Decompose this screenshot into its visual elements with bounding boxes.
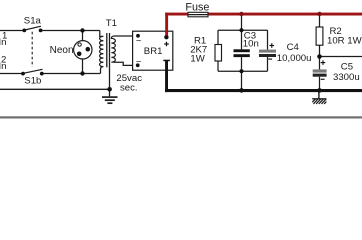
svg-text:In: In — [0, 37, 7, 48]
svg-text:sec.: sec. — [120, 83, 138, 94]
svg-text:BR1: BR1 — [144, 46, 163, 57]
svg-text:S1b: S1b — [24, 76, 41, 87]
svg-text:10n: 10n — [243, 39, 259, 50]
svg-text:10,000u: 10,000u — [277, 53, 312, 64]
svg-text:3300u: 3300u — [333, 72, 360, 83]
svg-text:S1a: S1a — [24, 15, 42, 26]
svg-text:~: ~ — [136, 35, 142, 46]
svg-text:Neon: Neon — [50, 45, 74, 56]
svg-text:Fuse: Fuse — [185, 2, 209, 14]
svg-text:T1: T1 — [106, 18, 117, 29]
svg-text:~: ~ — [136, 56, 142, 67]
svg-text:1W: 1W — [190, 54, 205, 65]
svg-text:In: In — [0, 61, 7, 72]
svg-text:10R 1W: 10R 1W — [327, 35, 362, 46]
svg-text:C5: C5 — [341, 62, 353, 73]
svg-text:C4: C4 — [287, 42, 300, 53]
